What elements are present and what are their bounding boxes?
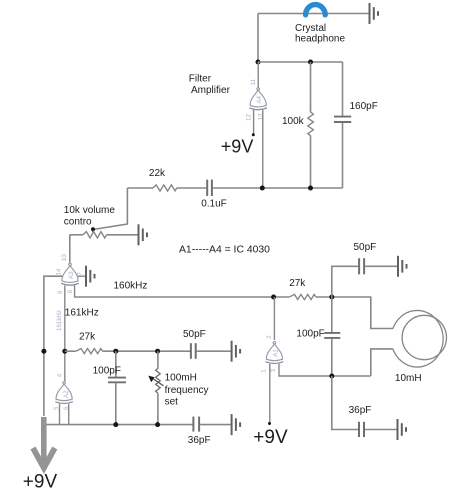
svg-text:50pF: 50pF bbox=[183, 329, 206, 340]
wire A1 pin1 to +9V bbox=[269, 364, 271, 424]
capacitor 0.1uF bbox=[206, 180, 208, 196]
svg-text:headphone: headphone bbox=[295, 33, 345, 44]
svg-text:contro: contro bbox=[64, 216, 92, 227]
wire pin12 to +9V bbox=[253, 110, 255, 135]
svg-text:50pF: 50pF bbox=[354, 242, 377, 253]
resistor 100k bbox=[310, 62, 312, 112]
wire to coil bbox=[316, 297, 393, 329]
node junction bbox=[329, 295, 334, 300]
svg-text:A1: A1 bbox=[272, 349, 279, 357]
wire osc1 bottom bus bbox=[44, 424, 193, 426]
node junction bbox=[308, 60, 313, 65]
wire 160kHz bus right bbox=[271, 295, 276, 300]
wire 22k left bbox=[127, 187, 153, 189]
svg-text:100k: 100k bbox=[282, 116, 305, 127]
svg-text:A1-----A4 = IC 4030: A1-----A4 = IC 4030 bbox=[179, 244, 270, 255]
svg-text:36pF: 36pF bbox=[349, 405, 372, 416]
svg-text:4: 4 bbox=[56, 373, 63, 377]
capacitor 160pF bbox=[342, 62, 344, 116]
inductor 10mH search coil bbox=[393, 310, 443, 367]
wire bbox=[103, 350, 190, 352]
wire bbox=[177, 187, 207, 189]
svg-text:10mH: 10mH bbox=[395, 373, 422, 384]
svg-text:+9V: +9V bbox=[253, 427, 288, 448]
svg-text:Crystal: Crystal bbox=[295, 23, 326, 34]
svg-text:+9V: +9V bbox=[23, 472, 58, 492]
op gate A1 oscillator 160kHz bbox=[273, 297, 275, 340]
capacitor 100pF (osc1) bbox=[115, 351, 117, 377]
capacitor 50pF (osc1) bbox=[190, 343, 192, 359]
svg-text:36pF: 36pF bbox=[188, 435, 211, 446]
wire from pot up to 22k bbox=[93, 188, 127, 230]
svg-text:7: 7 bbox=[77, 272, 84, 276]
svg-text:161kHz: 161kHz bbox=[56, 310, 63, 331]
svg-text:A2: A2 bbox=[63, 390, 70, 398]
svg-text:0.1uF: 0.1uF bbox=[201, 198, 227, 209]
svg-text:10k volume: 10k volume bbox=[64, 205, 116, 216]
svg-text:Filter: Filter bbox=[189, 74, 212, 85]
potentiometer 10k wiper bbox=[91, 227, 95, 231]
svg-text:27k: 27k bbox=[79, 332, 96, 343]
wire headphone top bbox=[258, 13, 369, 15]
crystal headphone transducer bbox=[306, 5, 326, 15]
wire pot to A3 output bbox=[69, 235, 71, 263]
wire pin13 down bbox=[262, 110, 264, 188]
ground (36pF osc1) bbox=[232, 414, 241, 435]
op gate A2 oscillator 161kHz bbox=[55, 382, 73, 404]
svg-text:2: 2 bbox=[266, 335, 273, 339]
ground (A3 pin7) bbox=[86, 266, 95, 287]
ground (50pF osc1) bbox=[232, 341, 241, 362]
wire A3 pin9 down to A2 output bbox=[64, 286, 66, 382]
resistor 27k (osc2) bbox=[289, 294, 316, 299]
node junction bbox=[155, 422, 160, 427]
ground (headphone) bbox=[370, 3, 379, 24]
svg-text:27k: 27k bbox=[289, 278, 306, 289]
svg-text:Amplifier: Amplifier bbox=[191, 85, 231, 96]
ground (36pF osc2) bbox=[398, 419, 407, 440]
inductor 100mH frequency set bbox=[157, 351, 159, 368]
wire A1 pin3 feedback bus bbox=[279, 364, 371, 376]
node junction 100k bottom bbox=[308, 186, 313, 191]
svg-text:set: set bbox=[165, 396, 179, 407]
wire pin7 to ground bbox=[78, 275, 86, 277]
node junction bbox=[329, 374, 334, 379]
node junction 100mH top bbox=[155, 349, 160, 354]
wire bbox=[257, 14, 259, 63]
resistor 22k bbox=[153, 185, 177, 191]
svg-text:22k: 22k bbox=[149, 168, 166, 179]
op gate A4 bbox=[249, 88, 267, 110]
potentiometer 10k body bbox=[70, 234, 83, 236]
svg-text:A3: A3 bbox=[68, 271, 75, 279]
arrow (variable) bbox=[153, 378, 164, 385]
capacitor 50pF (osc2) bbox=[332, 266, 358, 297]
svg-text:9: 9 bbox=[57, 290, 64, 294]
svg-text:100pF: 100pF bbox=[93, 366, 121, 377]
svg-text:A4: A4 bbox=[256, 95, 263, 103]
svg-text:1: 1 bbox=[261, 369, 268, 373]
power +9V arrow rail bbox=[41, 417, 47, 464]
wire coil bottom bbox=[371, 349, 393, 376]
node junction pin13 bbox=[260, 186, 265, 191]
svg-text:14: 14 bbox=[55, 268, 62, 275]
svg-text:160pF: 160pF bbox=[350, 101, 378, 112]
svg-text:160kHz: 160kHz bbox=[114, 280, 148, 291]
node on rail bbox=[41, 349, 46, 354]
svg-text:3: 3 bbox=[270, 368, 277, 372]
wire A4 output bbox=[257, 62, 259, 88]
svg-text:161kHz: 161kHz bbox=[65, 308, 99, 319]
wire A3 pin8 to 160kHz line bbox=[75, 286, 290, 298]
ground (50pF osc2) bbox=[398, 256, 407, 277]
ground (volume pot) bbox=[139, 224, 148, 245]
node junction 161kHz bbox=[62, 349, 67, 354]
svg-text:8: 8 bbox=[67, 289, 74, 293]
svg-text:100pF: 100pF bbox=[296, 329, 324, 340]
capacitor 36pF (osc2) bbox=[332, 376, 358, 430]
capacitor 36pF (osc1) bbox=[192, 417, 194, 432]
op gate A3 mixer bbox=[61, 263, 79, 285]
wire signal bus y188 bbox=[213, 187, 343, 189]
capacitor 100pF (osc2) bbox=[331, 297, 333, 332]
svg-text:11: 11 bbox=[250, 79, 257, 86]
svg-text:100mH: 100mH bbox=[165, 373, 197, 384]
wire osc1 top bus bbox=[65, 350, 76, 352]
wire pin14 to +9V rail bbox=[44, 276, 62, 416]
node junction 100pF top bbox=[113, 349, 118, 354]
wire A2 input stubs bbox=[59, 404, 61, 425]
svg-text:+9V: +9V bbox=[221, 136, 254, 156]
node junction bbox=[113, 422, 118, 427]
resistor 27k (osc1) bbox=[76, 349, 103, 354]
wire bbox=[258, 61, 343, 63]
svg-text:frequency: frequency bbox=[165, 385, 209, 396]
svg-text:12: 12 bbox=[245, 114, 252, 121]
node junction bbox=[256, 60, 261, 65]
svg-text:10: 10 bbox=[61, 254, 68, 261]
